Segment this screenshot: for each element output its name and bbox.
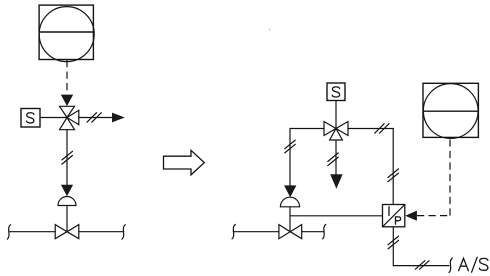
dashed signal wire from controller to solenoid valve bbox=[66, 60, 68, 94]
pneumatic double slash on left branch bbox=[285, 140, 296, 153]
wire S box to valve bbox=[40, 117, 67, 119]
pneumatic double slash on supply vertical bbox=[388, 236, 399, 249]
process pipe (left) bbox=[9, 231, 123, 233]
pipe break (left end of left pipe) bbox=[7, 225, 10, 240]
label A/S (air supply) bbox=[459, 257, 488, 272]
I/P positioner box bbox=[383, 205, 405, 227]
dashed signal wire controller to positioner bbox=[417, 138, 450, 215]
pneumatic double slash on vent line bbox=[87, 113, 101, 123]
block arrow (transition, outline) bbox=[164, 150, 205, 175]
pipe break (right end of right pipe) bbox=[323, 224, 326, 239]
pneumatic line stem junction to positioner bbox=[290, 215, 383, 217]
signal arrow into positioner (solid, pointing left) bbox=[405, 211, 417, 221]
process pipe (right) bbox=[233, 231, 324, 233]
pneumatic double slash on supply horizontal bbox=[415, 261, 429, 270]
pneumatic line 3-way valve to right corner bbox=[348, 129, 393, 205]
3-way solenoid valve body (left) bbox=[60, 106, 79, 129]
valve stem (right) bbox=[289, 207, 291, 232]
vent line below right 3-way valve bbox=[335, 140, 337, 175]
solenoid actuator box S bbox=[21, 109, 40, 128]
solenoid actuator box S (right) bbox=[327, 83, 345, 101]
pipe break at air supply bbox=[449, 258, 452, 273]
pneumatic line 3-way valve to left corner bbox=[290, 129, 324, 187]
pneumatic double slash on right vertical bbox=[388, 169, 399, 182]
control valve body (right, bowtie) bbox=[279, 225, 302, 239]
pneumatic double slash on valve-actuator line bbox=[62, 151, 72, 164]
control valve body (left, bowtie) bbox=[55, 225, 79, 239]
stray dot artifact bbox=[268, 28, 270, 30]
valve stem bbox=[66, 206, 68, 232]
pneumatic double slash on top right horizontal bbox=[375, 124, 389, 134]
pneumatic line valve to actuator bbox=[66, 130, 68, 186]
vent arrow (solid, pointing down) bbox=[330, 174, 342, 188]
wire S box to 3-way valve (right) bbox=[335, 101, 337, 129]
pipe break (right end of left pipe) bbox=[122, 225, 125, 240]
3-way solenoid valve body (right) bbox=[324, 122, 348, 141]
diaphragm actuator dome (left control valve) bbox=[58, 197, 76, 206]
fail-position arrow (solid, pointing down into 3-way valve) bbox=[61, 95, 73, 106]
pipe break (left end of right pipe) bbox=[232, 224, 235, 239]
air-to-actuator arrow (right diagram, pointing down onto diaphragm) bbox=[284, 185, 296, 197]
air supply line from positioner bbox=[393, 227, 449, 266]
air-to-actuator arrow (solid, pointing down onto diaphragm) bbox=[61, 185, 73, 197]
vent line from 3-way valve to right bbox=[79, 117, 113, 119]
diaphragm actuator dome (right control valve) bbox=[280, 197, 299, 207]
vent arrow (solid, pointing right) bbox=[112, 113, 125, 123]
pneumatic double slash on vent line (right) bbox=[328, 153, 339, 166]
instrument bubble (shared display controller, right) bbox=[423, 83, 478, 138]
instrument bubble (shared display controller, left) bbox=[39, 5, 94, 62]
